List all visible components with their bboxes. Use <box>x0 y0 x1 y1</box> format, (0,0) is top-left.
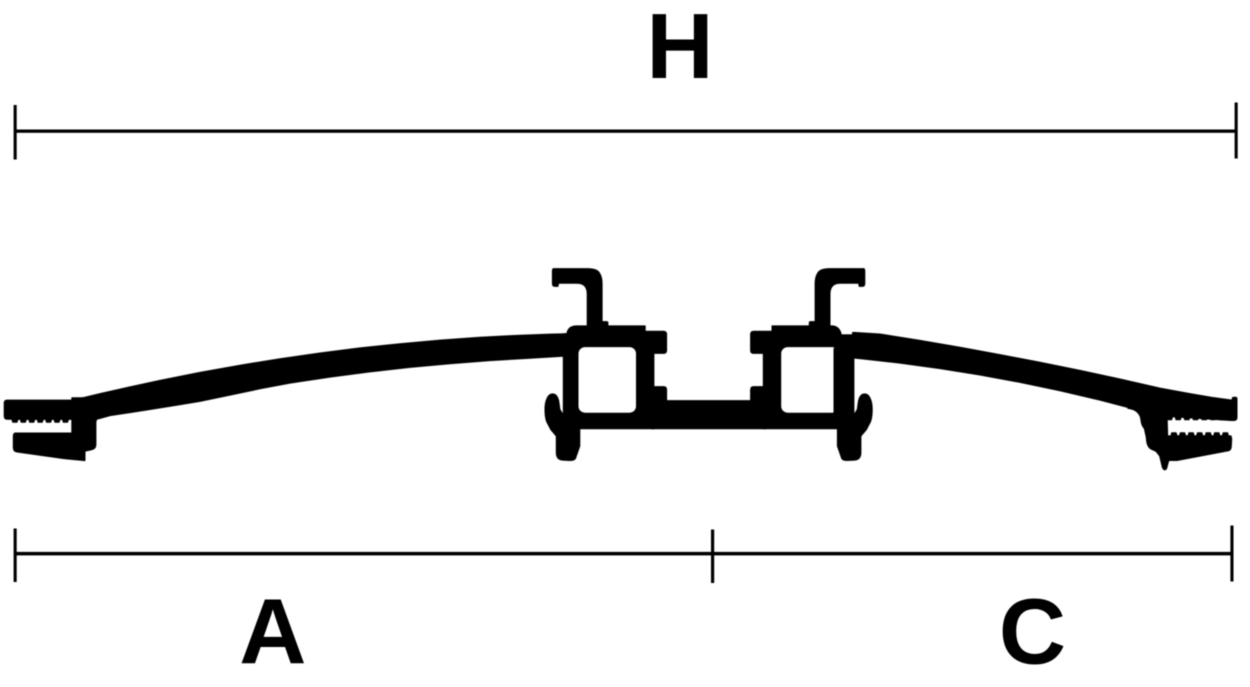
left jaw bottom bar teeth <box>14 433 74 438</box>
dimension line H horizontal <box>15 130 1236 133</box>
left half of central clip assembly <box>545 269 666 461</box>
cap side tab <box>644 331 666 353</box>
left jaw neck block <box>72 398 96 452</box>
dimension line A-C horizontal <box>15 552 1232 556</box>
dimension tick H right <box>1235 103 1238 159</box>
svg-text:C: C <box>999 580 1066 684</box>
svg-text:A: A <box>239 579 306 683</box>
hook top bar and stem <box>553 269 602 327</box>
right jaw bottom serrated bar <box>1169 436 1232 460</box>
lower side tab <box>653 387 666 401</box>
right arch band of profile <box>844 333 1237 416</box>
trim right cap length <box>834 324 853 334</box>
right jaw neck boot <box>1139 402 1170 470</box>
foot <box>557 420 580 460</box>
right jaw top bar teeth <box>1167 414 1237 420</box>
right cap step shoulder <box>833 326 845 339</box>
box hole <box>579 347 637 413</box>
box body <box>564 334 654 429</box>
dimension tick bottom right <box>1230 526 1233 582</box>
left jaw top bar teeth <box>12 417 71 422</box>
left jaw bottom serrated bar with pad <box>14 433 85 460</box>
central channel floor <box>652 401 766 429</box>
svg-text:H: H <box>646 0 713 98</box>
dimension tick bottom middle <box>711 530 714 584</box>
barb fin <box>545 394 564 436</box>
right box wall thickening <box>834 349 840 413</box>
left neck fillet to arch underside <box>96 411 110 422</box>
dimension tick bottom left <box>14 529 17 583</box>
right jaw end nub <box>1232 397 1236 402</box>
left arch band of profile <box>72 334 574 420</box>
right half of central clip assembly (mirror) <box>751 269 872 461</box>
dimension tick H left <box>14 105 17 160</box>
right jaw bottom bar teeth <box>1171 433 1231 438</box>
left jaw top serrated bar <box>4 400 95 419</box>
cap bar <box>567 326 645 347</box>
cap step bump right of stem <box>602 322 608 327</box>
right jaw top serrated bar <box>1152 401 1237 421</box>
right neck fillet to arch underside <box>1128 408 1141 419</box>
